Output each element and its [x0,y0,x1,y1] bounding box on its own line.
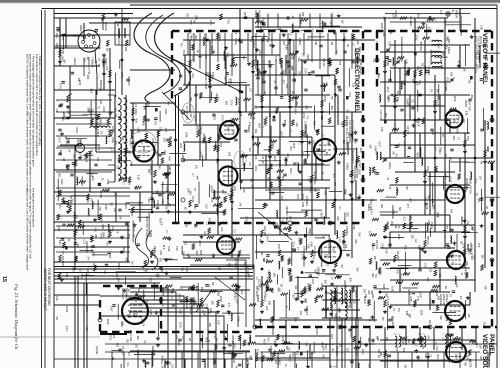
svg-text:BLK: BLK [178,310,181,315]
svg-text:GMV: GMV [149,309,152,315]
svg-text:.022: .022 [253,104,256,109]
svg-text:470: 470 [296,296,299,301]
svg-text:X8: X8 [457,60,461,64]
svg-text:33K: 33K [220,181,223,186]
svg-text:R15: R15 [371,294,374,299]
svg-text:820: 820 [479,357,482,362]
svg-text:33K: 33K [288,354,291,359]
svg-text:470: 470 [227,303,230,308]
svg-text:C12: C12 [474,178,477,183]
svg-text:WH: WH [473,255,476,259]
svg-text:WH: WH [225,101,228,105]
svg-text:3.3K: 3.3K [352,224,355,229]
svg-text:22K: 22K [452,136,455,141]
svg-text:15: 15 [1,276,7,282]
svg-text:400V: 400V [371,245,374,251]
svg-text:line operation and normal pict: line operation and normal picture. [32,188,36,228]
svg-text:400V: 400V [185,266,189,272]
svg-text:R15: R15 [210,197,213,202]
svg-text:400V: 400V [353,49,356,55]
svg-text:BLK: BLK [486,147,489,152]
svg-text:820: 820 [127,181,130,186]
svg-text:270V: 270V [230,100,233,106]
svg-text:C16: C16 [175,246,179,251]
svg-text:680: 680 [432,205,435,210]
svg-text:680: 680 [132,313,135,318]
svg-text:INTERLOCK: INTERLOCK [117,30,121,45]
svg-text:400V: 400V [444,173,447,179]
svg-text:12.5K: 12.5K [191,196,195,203]
svg-text:2.2: 2.2 [427,178,430,182]
svg-text:2.2: 2.2 [312,140,315,144]
svg-text:22K: 22K [363,289,366,294]
svg-text:C12: C12 [476,50,479,55]
svg-text:YEL: YEL [444,44,447,49]
svg-text:560: 560 [228,350,231,355]
svg-text:1ST VIF: 1ST VIF [467,100,471,111]
svg-text:390: 390 [266,177,269,182]
svg-text:120K: 120K [164,204,167,210]
svg-text:R11: R11 [404,245,407,250]
svg-text:6.8K: 6.8K [287,40,290,45]
svg-text:R11: R11 [149,233,152,238]
svg-text:120K: 120K [243,261,246,267]
svg-text:.01: .01 [475,342,478,346]
svg-text:100: 100 [132,227,135,232]
svg-text:10K: 10K [266,38,269,43]
svg-text:33K: 33K [379,352,382,357]
svg-text:560: 560 [281,176,285,181]
svg-text:6.8K: 6.8K [409,297,412,302]
svg-text:GMV: GMV [164,109,167,115]
svg-text:VR1: VR1 [254,10,257,15]
svg-text:2.2: 2.2 [248,162,251,166]
svg-text:560: 560 [128,150,131,155]
svg-text:C19 1-5: C19 1-5 [379,110,383,120]
svg-text:10K: 10K [138,201,141,206]
svg-text:750: 750 [91,108,94,113]
svg-text:R15 6.8MEG: R15 6.8MEG [353,166,357,181]
svg-text:680: 680 [195,126,198,131]
svg-text:560: 560 [210,301,213,306]
svg-text:R11: R11 [304,289,307,294]
svg-text:1W: 1W [469,190,472,194]
svg-text:400V: 400V [358,47,361,53]
svg-text:1MEG: 1MEG [388,162,391,169]
svg-text:.01: .01 [143,340,146,344]
svg-text:22K: 22K [83,58,86,63]
svg-text:120K: 120K [453,96,456,102]
svg-text:C12: C12 [230,118,233,123]
svg-text:BLK: BLK [240,290,243,295]
svg-text:WH: WH [243,12,246,16]
svg-text:750: 750 [314,269,317,274]
svg-text:47K: 47K [85,153,88,158]
svg-text:1MEG: 1MEG [484,52,487,59]
svg-text:GMV: GMV [182,251,185,257]
svg-text:100: 100 [415,119,418,124]
svg-text:1W: 1W [305,342,308,346]
svg-text:100K: 100K [254,56,258,62]
svg-text:400V: 400V [124,204,127,210]
svg-text:6.8K: 6.8K [382,284,385,289]
svg-text:390: 390 [200,287,203,292]
svg-text:470: 470 [281,80,284,85]
svg-text:390: 390 [127,314,130,319]
svg-text:270V: 270V [301,254,304,260]
svg-text:1W: 1W [131,261,134,265]
svg-text:100: 100 [134,186,137,191]
svg-text:BLK: BLK [269,147,272,152]
svg-text:120K: 120K [149,253,152,259]
svg-text:R11: R11 [307,283,310,288]
svg-text:2.2: 2.2 [249,88,252,92]
svg-text:750: 750 [330,95,333,100]
svg-text:R5 15K: R5 15K [386,221,390,230]
svg-text:180: 180 [373,256,376,261]
svg-text:.0047: .0047 [476,64,479,71]
svg-text:WH: WH [55,33,59,38]
svg-text:270V: 270V [315,153,318,159]
svg-text:52W: 52W [195,286,199,292]
svg-text:GMV: GMV [60,179,63,185]
svg-text:WH: WH [285,346,288,350]
svg-text:470: 470 [96,157,99,162]
svg-text:15K: 15K [164,128,167,133]
svg-text:470: 470 [157,274,160,279]
svg-text:1W: 1W [308,230,311,234]
svg-text:VERT OSC: VERT OSC [357,160,361,176]
svg-text:3.3K: 3.3K [480,25,483,30]
svg-text:1MEG: 1MEG [218,34,221,41]
svg-text:.0047: .0047 [384,349,387,356]
svg-text:6.8K: 6.8K [191,56,195,62]
svg-text:1W: 1W [250,178,253,182]
svg-text:120K: 120K [380,23,383,29]
svg-text:BLK: BLK [258,123,261,128]
svg-text:470: 470 [320,134,323,139]
svg-text:680: 680 [367,299,370,304]
svg-text:15K: 15K [98,45,101,50]
svg-text:22K: 22K [75,215,78,220]
svg-text:YEL: YEL [65,273,68,278]
svg-text:BLK: BLK [304,160,307,165]
svg-text:K: K [285,306,289,308]
svg-text:33K: 33K [136,349,139,354]
svg-text:R15: R15 [145,299,148,304]
svg-text:22K: 22K [58,48,61,53]
svg-text:10K: 10K [220,227,223,232]
svg-text:120K: 120K [435,290,438,296]
svg-text:R11: R11 [194,224,197,229]
svg-text:6.8K: 6.8K [89,235,92,240]
svg-text:750: 750 [242,189,245,194]
svg-text:.01: .01 [343,36,346,40]
svg-text:.0047: .0047 [102,106,105,113]
svg-text:.022: .022 [132,148,135,153]
svg-text:33K: 33K [251,184,254,189]
svg-text:3.3K: 3.3K [281,337,284,342]
svg-text:560: 560 [217,292,220,297]
svg-text:R15: R15 [296,194,299,199]
svg-text:400V: 400V [414,301,417,307]
svg-text:270V: 270V [466,244,469,250]
svg-text:.022: .022 [444,153,447,158]
svg-text:100: 100 [72,154,75,159]
svg-text:560: 560 [159,258,162,263]
svg-text:1MEG: 1MEG [117,263,120,270]
svg-text:1MEG: 1MEG [334,292,337,299]
svg-text:180: 180 [260,251,263,256]
svg-text:400V: 400V [293,108,296,114]
svg-text:3.3K: 3.3K [101,224,104,229]
svg-text:390: 390 [448,301,451,306]
svg-text:33K: 33K [124,257,127,262]
svg-text:750: 750 [291,221,295,226]
svg-text:33K: 33K [86,75,89,80]
svg-text:3.3K: 3.3K [140,318,143,323]
svg-text:GMV: GMV [231,54,234,60]
svg-text:.0047: .0047 [58,137,61,144]
svg-text:.01: .01 [464,267,467,271]
svg-text:3.3K: 3.3K [85,157,88,162]
svg-text:15K: 15K [303,246,306,251]
svg-text:1W: 1W [462,119,465,123]
svg-text:560: 560 [110,131,113,136]
svg-text:47K: 47K [396,269,399,274]
svg-text:6.8K: 6.8K [314,40,317,45]
svg-text:7W: 7W [55,316,59,320]
svg-text:C12: C12 [166,195,169,200]
svg-text:10K: 10K [97,146,100,151]
svg-text:10K: 10K [274,56,277,61]
svg-text:750: 750 [180,42,183,47]
svg-text:390: 390 [158,165,161,170]
svg-text:47K: 47K [477,243,480,248]
svg-text:1MEG: 1MEG [430,222,433,229]
svg-text:YEL: YEL [137,287,140,292]
svg-text:15K: 15K [247,342,250,347]
svg-text:350V: 350V [85,306,89,312]
svg-text:TUNER: TUNER [90,57,94,68]
svg-text:.01: .01 [69,92,73,96]
svg-text:22K: 22K [124,47,127,52]
svg-text:2.5 MEG: 2.5 MEG [305,196,309,206]
svg-text:22K: 22K [336,216,339,221]
svg-text:750: 750 [98,207,101,212]
svg-text:470: 470 [469,243,472,248]
svg-text:FOR BEST CENTERING: FOR BEST CENTERING [47,268,51,306]
svg-text:.022: .022 [326,261,329,266]
svg-text:820: 820 [407,339,410,344]
svg-text:C12: C12 [213,191,216,196]
svg-text:.01: .01 [460,272,463,276]
svg-text:270V: 270V [344,189,347,195]
svg-text:.0047: .0047 [391,13,394,20]
svg-text:7A SLO-BLO: 7A SLO-BLO [96,122,100,137]
svg-text:YEL: YEL [348,304,351,309]
svg-text:BLK: BLK [134,119,137,124]
svg-text:3.3K: 3.3K [385,248,388,253]
svg-text:33K: 33K [229,187,232,192]
svg-text:YEL: YEL [394,224,397,229]
svg-text:390: 390 [471,227,474,232]
svg-text:820: 820 [221,190,224,195]
svg-text:.0047: .0047 [266,236,269,243]
svg-text:820: 820 [345,213,348,218]
svg-text:750: 750 [334,50,337,55]
svg-text:10K: 10K [356,40,359,45]
svg-text:270V: 270V [457,115,460,121]
svg-text:560: 560 [268,113,271,118]
svg-text:YEL: YEL [99,100,102,105]
svg-text:R15: R15 [130,162,133,167]
svg-text:WH: WH [196,176,199,180]
svg-text:100: 100 [126,339,129,344]
svg-text:.0047: .0047 [255,348,258,355]
svg-text:22K: 22K [107,188,110,193]
svg-text:10K: 10K [255,62,258,67]
svg-text:.01: .01 [441,337,444,341]
svg-text:1MEG: 1MEG [234,38,237,45]
svg-text:100: 100 [381,317,384,322]
svg-text:47K: 47K [239,112,242,117]
svg-text:10K: 10K [467,313,470,318]
svg-text:200V: 200V [444,83,447,89]
svg-text:400V: 400V [289,168,292,174]
svg-text:820: 820 [349,278,352,283]
svg-text:10K: 10K [428,15,431,20]
svg-text:22K: 22K [307,244,310,249]
svg-text:.01: .01 [392,307,395,311]
svg-text:560: 560 [161,199,164,204]
svg-text:470: 470 [408,198,411,203]
svg-text:680: 680 [282,70,285,75]
svg-text:390: 390 [136,336,139,341]
svg-text:BLK: BLK [162,245,165,250]
svg-text:1MEG: 1MEG [278,160,281,167]
svg-text:.0047: .0047 [377,141,380,148]
svg-text:WH: WH [313,188,316,192]
svg-text:R11: R11 [428,300,431,305]
svg-text:270V: 270V [415,35,418,41]
svg-text:.022: .022 [213,115,216,120]
svg-text:400V: 400V [323,96,327,102]
svg-text:6.8K: 6.8K [160,324,163,329]
svg-text:6.8K: 6.8K [424,353,427,358]
svg-text:40UF: 40UF [65,306,69,313]
svg-text:2.2: 2.2 [185,85,188,89]
svg-text:270V: 270V [304,68,307,74]
svg-text:.022: .022 [215,97,218,102]
svg-text:C12: C12 [204,204,207,209]
svg-text:C12: C12 [207,309,210,314]
svg-text:470: 470 [312,256,315,261]
svg-text:WH: WH [377,74,380,78]
svg-text:C12: C12 [375,41,378,46]
svg-text:680: 680 [224,76,227,81]
svg-text:180: 180 [265,280,268,285]
svg-text:820: 820 [480,197,483,202]
svg-text:680: 680 [58,173,61,178]
svg-text:.0047: .0047 [395,346,399,353]
svg-text:680: 680 [440,65,443,70]
svg-text:680: 680 [378,271,381,276]
svg-text:E3-3: E3-3 [263,296,267,302]
svg-text:40/350V: 40/350V [127,76,131,86]
svg-text:BLK: BLK [418,245,421,250]
svg-text:6.8K: 6.8K [310,242,313,247]
svg-text:.022: .022 [428,267,431,272]
svg-text:10K: 10K [256,286,259,291]
svg-text:390: 390 [334,313,337,318]
svg-text:C9 .022 600V: C9 .022 600V [61,251,65,267]
svg-text:33K: 33K [463,67,466,72]
svg-text:.004: .004 [219,142,223,148]
svg-text:GMV: GMV [57,226,60,232]
svg-text:180: 180 [288,216,291,221]
svg-text:1W: 1W [66,110,69,114]
svg-text:ADD THE SUFFIX B: ADD THE SUFFIX B [351,120,354,142]
svg-text:R11: R11 [380,204,383,209]
svg-text:YEL: YEL [389,30,392,35]
svg-text:YEL: YEL [80,274,83,279]
svg-text:2.2: 2.2 [125,139,128,143]
svg-text:680: 680 [367,338,370,343]
svg-text:.0047: .0047 [388,41,391,48]
svg-text:WH: WH [269,288,272,292]
svg-text:1MEG: 1MEG [211,72,215,79]
svg-text:33K: 33K [301,12,304,17]
svg-text:470: 470 [94,228,97,233]
svg-text:100: 100 [288,257,291,262]
svg-text:33K: 33K [155,150,158,155]
svg-text:HOR OSC 30-6053-1: HOR OSC 30-6053-1 [145,216,149,241]
svg-text:.0047: .0047 [193,203,196,210]
svg-text:560: 560 [470,256,473,261]
svg-text:680: 680 [283,120,286,125]
svg-text:100: 100 [266,337,269,342]
svg-text:3.3K: 3.3K [405,59,408,64]
svg-text:560: 560 [160,268,163,273]
svg-text:100: 100 [478,176,481,181]
svg-text:47K: 47K [280,64,283,69]
svg-text:200V: 200V [78,151,81,157]
svg-text:VR3: VR3 [159,250,163,256]
svg-text:750: 750 [116,165,119,170]
svg-text:1W: 1W [341,20,344,24]
svg-text:2.3: 2.3 [181,336,185,340]
svg-text:1W: 1W [192,20,195,24]
svg-text:WH: WH [167,101,170,105]
svg-text:3.3K: 3.3K [106,179,109,184]
svg-text:OQUW: OQUW [95,346,99,355]
svg-text:V.O.T.: V.O.T. [354,290,358,298]
svg-text:YEL: YEL [227,19,230,24]
svg-text:.01: .01 [456,336,459,340]
svg-text:YEL: YEL [267,270,270,275]
svg-text:470: 470 [406,204,409,209]
svg-text:R11: R11 [228,311,231,316]
svg-text:WH: WH [456,128,459,132]
svg-text:R12 180: R12 180 [291,91,295,101]
svg-text:OR-YEL: OR-YEL [427,66,431,76]
svg-text:22K: 22K [305,105,308,110]
svg-text:33K R2: 33K R2 [322,58,325,67]
svg-text:3.3K: 3.3K [151,138,154,143]
svg-text:1W: 1W [238,202,241,206]
svg-text:1W: 1W [118,215,121,219]
